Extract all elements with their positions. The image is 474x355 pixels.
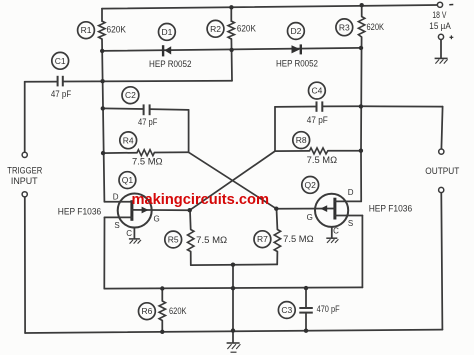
svg-text:R4: R4 bbox=[123, 135, 134, 145]
wire C4 box top left bbox=[275, 106, 316, 108]
designator R8 bbox=[293, 132, 310, 149]
wire C2 box top left bbox=[103, 107, 144, 110]
wire R7 top stub bbox=[276, 209, 279, 230]
resistor R8 bbox=[310, 148, 328, 154]
svg-text:7.5 MΩ: 7.5 MΩ bbox=[132, 157, 163, 167]
svg-text:7.5 MΩ: 7.5 MΩ bbox=[307, 155, 338, 165]
node left rail diode line bbox=[100, 49, 104, 53]
node bottom rail R6 bbox=[160, 330, 164, 334]
resistor R2 bbox=[228, 21, 234, 39]
wire R4 line right bbox=[154, 151, 188, 153]
terminal output lower bbox=[439, 187, 444, 192]
resistor R4 bbox=[137, 150, 154, 156]
svg-text:470 pF: 470 pF bbox=[317, 304, 340, 314]
wire right rail to Q2 drain level bbox=[360, 151, 362, 202]
wire output upper vertical bbox=[441, 107, 442, 149]
capacitor C1 bbox=[58, 76, 63, 87]
node top rail R2 bbox=[229, 5, 233, 9]
resistor R6 bbox=[159, 301, 165, 321]
svg-text:HEP F1036: HEP F1036 bbox=[369, 204, 413, 214]
designator Q1 bbox=[119, 172, 136, 189]
svg-text:G: G bbox=[307, 213, 313, 222]
svg-text:R5: R5 bbox=[168, 235, 179, 245]
ground under Q1 case bbox=[129, 239, 141, 244]
node C4 line right rail bbox=[359, 104, 363, 108]
wire right rail main bbox=[360, 37, 363, 151]
transistor Q1 drain lead bbox=[104, 201, 131, 203]
battery minus sign bbox=[449, 4, 453, 6]
capacitor C3 bbox=[299, 308, 313, 313]
node left rail R4 line bbox=[101, 151, 105, 155]
wire R5 top stub bbox=[189, 210, 192, 229]
svg-text:7.5 MΩ: 7.5 MΩ bbox=[283, 234, 314, 244]
terminal battery minus bbox=[437, 2, 442, 7]
wire left rail upper stub bbox=[101, 9, 103, 22]
svg-text:S: S bbox=[348, 219, 353, 228]
svg-text:INPUT: INPUT bbox=[11, 176, 38, 186]
svg-text:D: D bbox=[348, 188, 354, 197]
node R8 line right rail bbox=[359, 149, 363, 153]
designator C1 bbox=[52, 52, 69, 69]
designator C3 bbox=[278, 302, 295, 319]
transistor Q1 source lead bbox=[105, 216, 132, 218]
terminal output upper bbox=[439, 149, 444, 154]
svg-text:620K: 620K bbox=[237, 24, 256, 34]
svg-text:D2: D2 bbox=[290, 26, 301, 36]
wire top supply rail bbox=[102, 5, 437, 9]
diode D2 bbox=[292, 44, 301, 54]
terminal trigger input lower bbox=[22, 192, 27, 197]
designator C4 bbox=[309, 82, 326, 99]
wire C1 line right bbox=[63, 80, 232, 83]
transistor Q1 gate lead bbox=[132, 209, 190, 211]
svg-text:D: D bbox=[113, 192, 119, 201]
designator R3 bbox=[336, 19, 353, 36]
resistor R5 bbox=[188, 230, 194, 252]
ground battery positive bbox=[435, 58, 448, 63]
svg-text:C2: C2 bbox=[125, 90, 136, 100]
svg-text:18 V: 18 V bbox=[432, 10, 446, 20]
wire C2 box top right bbox=[150, 108, 189, 111]
designator R7 bbox=[254, 231, 271, 248]
node bottom rail center bbox=[231, 328, 235, 332]
wire trigger upper vertical bbox=[24, 82, 26, 152]
wire right rail top stub bbox=[361, 5, 363, 16]
wire R2 top stub bbox=[230, 7, 232, 21]
svg-text:HEP R0052: HEP R0052 bbox=[276, 58, 318, 68]
wire Q1 source vertical bbox=[103, 217, 105, 288]
resistor R7 bbox=[274, 230, 280, 252]
svg-text:HEP R0052: HEP R0052 bbox=[149, 59, 192, 69]
svg-text:C: C bbox=[126, 229, 132, 238]
wire output lower vertical bbox=[441, 193, 442, 330]
svg-text:OUTPUT: OUTPUT bbox=[425, 166, 459, 176]
svg-text:47 pF: 47 pF bbox=[307, 115, 328, 125]
designator R2 bbox=[207, 20, 224, 37]
designator C2 bbox=[122, 87, 139, 104]
wire R8 line right bbox=[328, 150, 361, 152]
wire C4 line to output bbox=[361, 105, 443, 107]
wire C2 box right side bbox=[188, 110, 190, 152]
transistor Q2 channel bar bbox=[333, 198, 336, 220]
svg-text:R8: R8 bbox=[296, 135, 307, 145]
node bottom rail C3 bbox=[304, 329, 308, 333]
svg-text:C: C bbox=[333, 227, 339, 236]
transistor Q2 source lead bbox=[335, 215, 363, 217]
wire R8 line left bbox=[275, 150, 310, 152]
svg-text:D1: D1 bbox=[161, 27, 172, 37]
designator R4 bbox=[120, 132, 137, 149]
wire Q2 source vertical bbox=[361, 216, 363, 288]
svg-text:C1: C1 bbox=[55, 56, 66, 66]
svg-text:Q1: Q1 bbox=[122, 175, 134, 185]
terminal battery plus bbox=[438, 34, 443, 39]
capacitor C4 bbox=[317, 101, 323, 111]
resistor R3 bbox=[358, 17, 364, 38]
node Q2 gate junction bbox=[274, 207, 278, 211]
transistor Q1 channel bar bbox=[130, 200, 133, 221]
transistor Q1 gate arrow bbox=[142, 207, 149, 214]
wire R6 top stub bbox=[161, 289, 163, 302]
svg-text:47 pF: 47 pF bbox=[138, 117, 158, 127]
wire left rail main bbox=[102, 39, 104, 202]
svg-text:R2: R2 bbox=[210, 24, 221, 34]
svg-text:620K: 620K bbox=[107, 24, 127, 34]
transistor Q2 case lead bbox=[331, 227, 333, 238]
designator Q2 bbox=[302, 177, 319, 194]
wire R6 bottom stub bbox=[161, 321, 163, 332]
svg-text:G: G bbox=[153, 214, 159, 223]
wire diode rail bbox=[102, 48, 361, 51]
transistor Q2 gate arrow bbox=[320, 205, 327, 212]
svg-text:47 pF: 47 pF bbox=[51, 89, 72, 99]
svg-text:R3: R3 bbox=[339, 22, 350, 32]
svg-text:620K: 620K bbox=[169, 306, 187, 316]
terminal trigger input upper bbox=[22, 152, 27, 157]
wire R5 bottom stub bbox=[190, 252, 192, 266]
wire source mid rail bbox=[104, 287, 362, 288]
capacitor C2 bbox=[144, 104, 150, 115]
designator D1 bbox=[159, 24, 176, 41]
svg-text:makingcircuits.com: makingcircuits.com bbox=[132, 191, 270, 208]
ground bottom center bbox=[227, 343, 241, 352]
svg-text:S: S bbox=[114, 221, 119, 230]
wire C3 bottom lead bbox=[305, 313, 307, 331]
wire R5-R7 bottom line bbox=[191, 263, 277, 266]
wire bottom ground rail bbox=[25, 330, 442, 333]
transistor Q2 drain lead bbox=[335, 200, 361, 202]
wire R4 line left bbox=[103, 152, 137, 154]
svg-text:HEP F1036: HEP F1036 bbox=[58, 207, 101, 217]
svg-text:Q2: Q2 bbox=[305, 180, 317, 190]
node Q1 gate junction bbox=[188, 208, 192, 212]
transistor Q2 gate lead bbox=[276, 208, 335, 210]
designator D2 bbox=[288, 23, 305, 40]
svg-text:TRIGGER: TRIGGER bbox=[7, 165, 42, 175]
node left rail C1 line bbox=[100, 79, 104, 83]
transistor Q1 body bbox=[118, 194, 152, 228]
svg-text:R1: R1 bbox=[81, 25, 92, 35]
svg-text:620K: 620K bbox=[367, 22, 385, 32]
ground under Q2 case bbox=[326, 238, 338, 243]
svg-text:15 µA: 15 µA bbox=[429, 21, 451, 31]
battery plus sign bbox=[450, 35, 454, 39]
resistor R1 bbox=[99, 21, 105, 39]
wire cross-couple diagonal A bbox=[189, 152, 277, 208]
svg-text:R6: R6 bbox=[141, 306, 152, 316]
svg-text:7.5 MΩ: 7.5 MΩ bbox=[196, 235, 227, 245]
wire C4 box top right bbox=[323, 105, 361, 107]
diode D1 bbox=[163, 45, 171, 56]
node mid rail R6 bbox=[160, 286, 164, 290]
node mid rail center bbox=[231, 286, 235, 290]
wire center vertical to ground bbox=[232, 265, 234, 343]
svg-text:R7: R7 bbox=[257, 234, 268, 244]
wire R7 bottom stub bbox=[276, 252, 278, 265]
wire battery plus lead bbox=[440, 40, 442, 58]
svg-text:C3: C3 bbox=[281, 305, 292, 315]
wire C4 box left side bbox=[274, 107, 276, 151]
node diode line R2 bbox=[229, 48, 233, 52]
transistor Q1 case lead bbox=[133, 228, 135, 239]
wire C3 top lead bbox=[305, 288, 307, 308]
node top rail R3 bbox=[360, 3, 364, 7]
node diode line right end bbox=[359, 46, 363, 50]
designator R1 bbox=[78, 22, 95, 39]
wire R2 bottom stub bbox=[230, 39, 233, 81]
node left rail C2 line bbox=[101, 106, 105, 110]
transistor Q2 body bbox=[315, 194, 348, 227]
node mid rail C3 bbox=[304, 286, 308, 290]
designator R6 bbox=[139, 303, 156, 320]
node R5-R7 line center bbox=[231, 263, 235, 267]
wire trigger lower vertical bbox=[24, 197, 26, 333]
wire C1 line left bbox=[25, 81, 58, 83]
wire cross-couple diagonal B bbox=[190, 151, 275, 210]
designator R5 bbox=[165, 231, 182, 248]
svg-text:C4: C4 bbox=[311, 86, 322, 96]
